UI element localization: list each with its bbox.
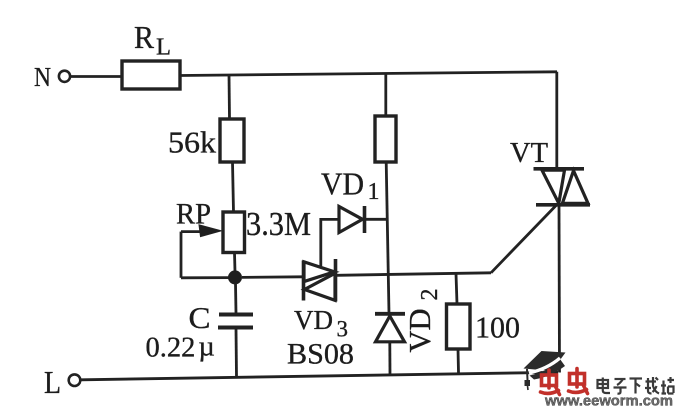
char zhan xyxy=(661,381,666,394)
wire wiper down xyxy=(180,232,183,278)
potentiometer RP body xyxy=(223,212,245,253)
resistor mid (unlabeled) xyxy=(375,116,396,162)
wire triac to bottom rail xyxy=(558,205,561,373)
watermark logo: red bug character 1 xyxy=(541,370,560,395)
node junction dot xyxy=(228,270,242,284)
svg-text:N: N xyxy=(34,62,51,92)
diode VD1 triangle xyxy=(339,207,363,233)
svg-text:RP: RP xyxy=(176,198,211,231)
char xia xyxy=(630,377,643,379)
wire VD1 to mid column xyxy=(365,218,387,221)
char zai xyxy=(645,377,659,394)
triac VT left triangle xyxy=(542,170,565,203)
svg-text:VD: VD xyxy=(294,305,333,335)
svg-text:2: 2 xyxy=(417,289,443,301)
terminal L circle xyxy=(69,374,81,386)
wire gate horizontal xyxy=(337,273,491,276)
triac VT top bar xyxy=(534,167,585,171)
wire 100 to bottom rail xyxy=(457,349,460,373)
watermark logo: graduation cap xyxy=(524,351,566,390)
label VD2 rotated xyxy=(402,289,443,353)
wire wiper to node xyxy=(181,276,230,279)
diac VD3 upper triangle xyxy=(304,262,335,282)
char zi xyxy=(615,378,626,380)
wire right drop to triac xyxy=(555,72,558,169)
diac VD3 right bar xyxy=(334,259,338,302)
diac VD3 left bar xyxy=(302,261,306,301)
svg-text:VT: VT xyxy=(510,138,548,169)
svg-text:R: R xyxy=(134,19,155,55)
diode VD2 triangle xyxy=(376,316,405,342)
tassel xyxy=(526,369,529,380)
terminal N circle xyxy=(59,71,70,82)
diode VD1 cathode bar xyxy=(363,206,367,233)
potentiometer RP wiper arrow xyxy=(181,230,203,233)
wire gate diagonal to triac xyxy=(491,206,556,273)
wire bottom rail xyxy=(81,372,558,380)
svg-text:1: 1 xyxy=(368,179,380,205)
wire rail to 56k xyxy=(228,75,231,120)
svg-text:VD: VD xyxy=(321,166,364,202)
wire top rail xyxy=(180,72,557,76)
svg-text:BS08: BS08 xyxy=(287,338,354,371)
svg-text:0.22µ: 0.22µ xyxy=(146,332,215,364)
triac VT right triangle xyxy=(562,171,588,204)
svg-text:100: 100 xyxy=(475,310,520,345)
wire VD2 to bottom rail xyxy=(388,342,391,375)
watermark logo: red bug character 2 xyxy=(569,369,588,394)
triac VT bottom bar xyxy=(536,203,590,207)
wire N to RL xyxy=(71,75,123,78)
wire VD3 gate up to VD1 xyxy=(321,219,339,266)
wire to resistor 100 xyxy=(456,274,457,304)
wire node to diac VD3 xyxy=(242,275,302,278)
wire capacitor to bottom rail xyxy=(235,329,238,378)
resistor 100 xyxy=(447,304,471,349)
wire RP to node xyxy=(233,253,236,273)
svg-text:56k: 56k xyxy=(168,125,217,160)
wire mid column down xyxy=(386,162,389,314)
svg-text:3.3M: 3.3M xyxy=(246,206,311,243)
svg-text:www.eeworm.com: www.eeworm.com xyxy=(544,393,673,409)
resistor 56k xyxy=(220,119,244,162)
diode VD2 cathode bar xyxy=(375,312,405,316)
wire rail to mid resistor xyxy=(384,74,387,117)
diac VD3 lower triangle xyxy=(305,273,336,300)
svg-text:L: L xyxy=(44,364,61,400)
watermark logo: black chinese text (electronics download station) xyxy=(598,377,675,394)
wire 56k to RP xyxy=(233,162,234,212)
svg-text:C: C xyxy=(189,300,211,335)
resistor RL xyxy=(122,61,180,89)
char dian xyxy=(598,380,609,388)
svg-text:L: L xyxy=(156,35,171,61)
svg-text:VD: VD xyxy=(402,309,437,353)
wire node to capacitor xyxy=(234,283,237,314)
capacitor C plates xyxy=(219,313,253,317)
